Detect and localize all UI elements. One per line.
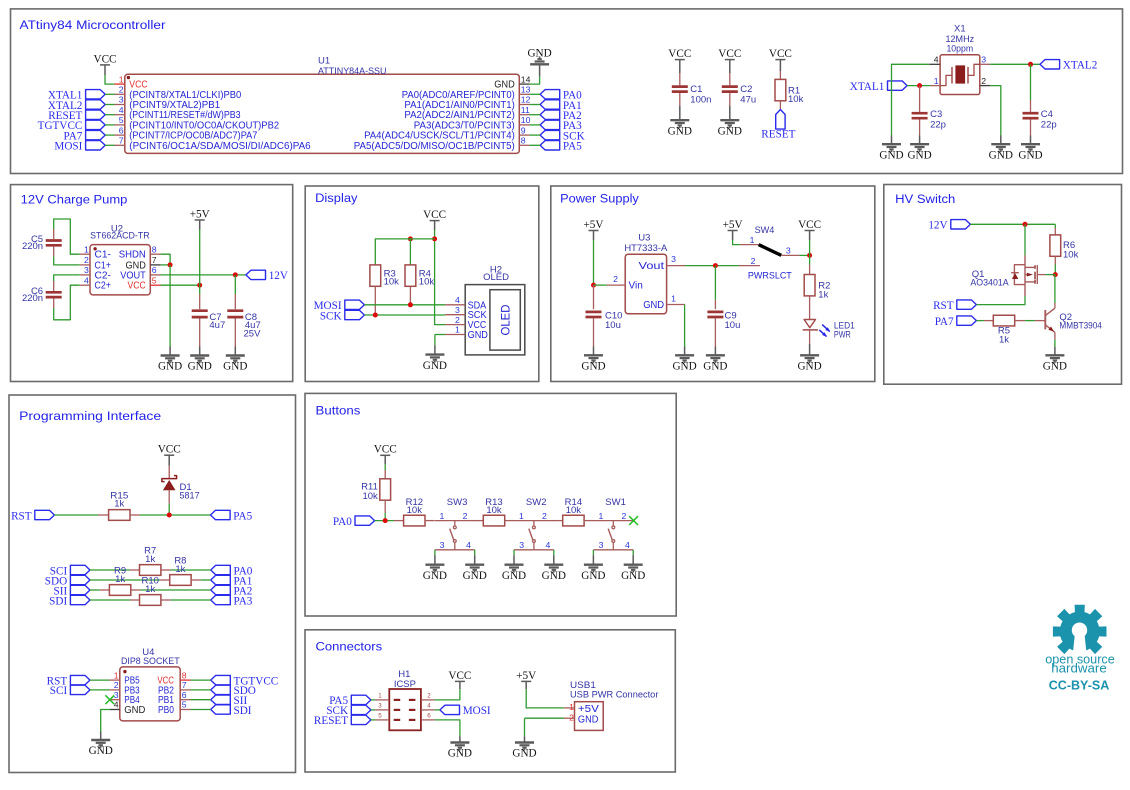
- svg-text:GND: GND: [502, 570, 526, 582]
- svg-text:+5V: +5V: [578, 704, 599, 715]
- svg-text:8: 8: [182, 670, 187, 680]
- svg-text:1: 1: [934, 76, 939, 86]
- svg-text:2: 2: [119, 85, 124, 95]
- svg-text:5: 5: [378, 712, 382, 719]
- svg-text:Display: Display: [315, 191, 358, 205]
- svg-text:13: 13: [521, 85, 531, 95]
- svg-text:4: 4: [84, 275, 89, 285]
- svg-text:GND: GND: [158, 361, 182, 373]
- svg-text:Power Supply: Power Supply: [560, 192, 640, 206]
- svg-text:GND: GND: [581, 361, 605, 373]
- svg-text:1: 1: [750, 235, 755, 245]
- svg-text:3: 3: [119, 95, 124, 105]
- svg-text:SCI: SCI: [50, 685, 68, 697]
- svg-text:SW4: SW4: [755, 225, 775, 236]
- svg-text:PB0: PB0: [158, 705, 174, 716]
- svg-text:4: 4: [114, 700, 119, 710]
- svg-text:SW1: SW1: [605, 497, 626, 508]
- svg-text:Buttons: Buttons: [316, 404, 361, 418]
- svg-text:7: 7: [152, 255, 157, 265]
- svg-text:1k: 1k: [145, 584, 155, 595]
- svg-text:DIP8 SOCKET: DIP8 SOCKET: [121, 656, 180, 667]
- svg-text:4: 4: [625, 540, 630, 550]
- svg-text:2: 2: [463, 511, 468, 521]
- svg-text:3: 3: [981, 55, 986, 65]
- svg-text:10k: 10k: [788, 94, 804, 105]
- svg-text:220n: 220n: [22, 241, 43, 252]
- svg-text:hardware: hardware: [1051, 661, 1107, 676]
- svg-text:3: 3: [786, 245, 791, 255]
- svg-text:+5V: +5V: [584, 219, 604, 231]
- svg-text:6: 6: [427, 712, 431, 719]
- svg-text:GND: GND: [1018, 149, 1042, 161]
- svg-text:GND: GND: [527, 48, 551, 60]
- svg-text:25V: 25V: [244, 328, 262, 339]
- svg-text:Connectors: Connectors: [316, 640, 383, 654]
- svg-text:VCC: VCC: [448, 670, 471, 682]
- svg-text:2: 2: [613, 274, 618, 284]
- svg-text:4: 4: [934, 55, 939, 65]
- svg-text:8: 8: [152, 244, 157, 254]
- svg-text:+5V: +5V: [516, 670, 536, 682]
- svg-text:GND: GND: [718, 125, 742, 137]
- svg-text:PA3: PA3: [234, 595, 253, 607]
- svg-text:10k: 10k: [486, 505, 502, 516]
- svg-text:GND: GND: [1043, 361, 1067, 373]
- svg-text:GND: GND: [578, 714, 599, 725]
- svg-text:22p: 22p: [930, 120, 946, 131]
- svg-text:2: 2: [751, 256, 756, 266]
- svg-text:VCC: VCC: [798, 219, 821, 231]
- svg-text:PA5: PA5: [233, 510, 252, 522]
- svg-text:HV Switch: HV Switch: [895, 192, 955, 206]
- svg-text:9: 9: [521, 125, 526, 135]
- svg-text:10k: 10k: [362, 491, 378, 502]
- svg-text:1: 1: [671, 293, 676, 303]
- svg-text:12V: 12V: [269, 270, 288, 282]
- svg-text:1: 1: [114, 670, 119, 680]
- svg-text:OLED: OLED: [501, 305, 513, 336]
- svg-text:10ppm: 10ppm: [946, 44, 973, 55]
- svg-text:PA7: PA7: [935, 316, 954, 328]
- svg-text:1: 1: [378, 692, 382, 699]
- svg-text:5: 5: [182, 700, 187, 710]
- svg-text:1: 1: [440, 511, 445, 521]
- svg-text:GND: GND: [463, 570, 487, 582]
- svg-text:PA0: PA0: [333, 516, 352, 528]
- svg-text:4: 4: [455, 295, 460, 305]
- svg-text:8: 8: [521, 136, 526, 146]
- svg-text:X1: X1: [954, 24, 966, 35]
- svg-text:1: 1: [84, 244, 89, 254]
- svg-text:OLED: OLED: [483, 272, 509, 283]
- svg-text:2: 2: [84, 255, 89, 265]
- svg-text:1: 1: [569, 702, 574, 712]
- svg-text:2: 2: [569, 713, 574, 723]
- svg-text:5817: 5817: [180, 491, 200, 502]
- svg-text:VCC: VCC: [423, 209, 446, 221]
- svg-text:ATtiny84 Microcontroller: ATtiny84 Microcontroller: [20, 18, 166, 32]
- svg-text:RESET: RESET: [314, 715, 348, 727]
- svg-text:GND: GND: [512, 748, 536, 760]
- svg-text:SDI: SDI: [49, 595, 67, 607]
- svg-text:GND: GND: [89, 745, 113, 757]
- svg-text:GND: GND: [797, 361, 821, 373]
- svg-text:SW2: SW2: [526, 497, 547, 508]
- svg-text:C1-: C1-: [95, 250, 111, 261]
- svg-text:220n: 220n: [22, 293, 43, 304]
- svg-text:3: 3: [84, 265, 89, 275]
- svg-text:GND: GND: [423, 360, 447, 372]
- svg-text:AO3401A: AO3401A: [970, 277, 1009, 288]
- svg-text:4u7: 4u7: [209, 320, 225, 331]
- svg-text:1k: 1k: [818, 289, 828, 300]
- svg-text:12V Charge Pump: 12V Charge Pump: [21, 193, 128, 207]
- svg-text:1: 1: [119, 74, 124, 84]
- svg-text:5: 5: [152, 275, 157, 285]
- svg-text:USB PWR Connector: USB PWR Connector: [570, 690, 658, 701]
- svg-text:1: 1: [519, 511, 524, 521]
- svg-text:3: 3: [671, 254, 676, 264]
- svg-text:MMBT3904: MMBT3904: [1059, 321, 1102, 332]
- svg-text:6: 6: [119, 125, 124, 135]
- svg-text:VCC: VCC: [374, 444, 397, 456]
- svg-text:1: 1: [455, 325, 460, 335]
- svg-text:PWRSLCT: PWRSLCT: [748, 270, 792, 281]
- svg-text:10k: 10k: [407, 505, 423, 516]
- svg-text:HT7333-A: HT7333-A: [624, 243, 668, 254]
- svg-text:GND: GND: [989, 149, 1013, 161]
- svg-text:4: 4: [427, 702, 431, 709]
- svg-text:SW3: SW3: [447, 497, 468, 508]
- svg-text:GND: GND: [124, 705, 145, 716]
- svg-text:XTAL1: XTAL1: [850, 81, 885, 93]
- svg-text:XTAL2: XTAL2: [1063, 60, 1098, 72]
- svg-text:1k: 1k: [999, 335, 1009, 346]
- svg-text:GND: GND: [223, 361, 247, 373]
- svg-text:SDI: SDI: [234, 705, 252, 717]
- svg-text:MOSI: MOSI: [54, 141, 82, 153]
- svg-text:VCC: VCC: [128, 281, 146, 292]
- svg-text:4: 4: [466, 540, 471, 550]
- svg-text:GND: GND: [581, 570, 605, 582]
- svg-text:3: 3: [599, 540, 604, 550]
- svg-text:4: 4: [119, 105, 124, 115]
- svg-text:3: 3: [378, 702, 382, 709]
- svg-text:GND: GND: [448, 748, 472, 760]
- svg-text:7: 7: [119, 136, 124, 146]
- svg-text:RESET: RESET: [761, 129, 795, 141]
- svg-text:3: 3: [455, 305, 460, 315]
- svg-text:4: 4: [546, 540, 551, 550]
- svg-text:10k: 10k: [566, 505, 582, 516]
- svg-text:14: 14: [521, 74, 531, 84]
- svg-text:7: 7: [182, 680, 187, 690]
- svg-text:GND: GND: [188, 361, 212, 373]
- svg-text:10u: 10u: [725, 320, 741, 331]
- svg-text:2: 2: [455, 315, 460, 325]
- svg-text:CC-BY-SA: CC-BY-SA: [1049, 678, 1110, 693]
- svg-text:GND: GND: [423, 570, 447, 582]
- svg-text:2: 2: [114, 680, 119, 690]
- svg-text:6: 6: [182, 690, 187, 700]
- svg-text:1k: 1k: [145, 554, 155, 565]
- svg-text:GND: GND: [703, 361, 727, 373]
- svg-text:1k: 1k: [114, 498, 124, 509]
- svg-text:GND: GND: [672, 361, 696, 373]
- svg-text:+5V: +5V: [723, 219, 743, 231]
- svg-text:22p: 22p: [1041, 120, 1057, 131]
- svg-text:6: 6: [152, 265, 157, 275]
- svg-text:GND: GND: [668, 125, 692, 137]
- svg-text:12: 12: [521, 95, 531, 105]
- svg-text:Vin: Vin: [629, 281, 643, 292]
- svg-text:2: 2: [621, 511, 626, 521]
- svg-text:100n: 100n: [690, 94, 711, 105]
- svg-text:10k: 10k: [419, 276, 435, 287]
- svg-text:U3: U3: [638, 233, 650, 244]
- svg-text:SCK: SCK: [320, 310, 342, 322]
- svg-text:VCC: VCC: [158, 444, 181, 456]
- svg-text:GND: GND: [907, 149, 931, 161]
- svg-text:VCC: VCC: [769, 48, 792, 60]
- svg-text:PWR: PWR: [834, 329, 851, 340]
- svg-text:10: 10: [521, 115, 531, 125]
- svg-text:(PCINT6/OC1A/SDA/MOSI/DI/ADC6): (PCINT6/OC1A/SDA/MOSI/DI/ADC6)PA6: [129, 141, 311, 152]
- svg-text:PA5: PA5: [563, 141, 582, 153]
- svg-text:ATTINY84A-SSU: ATTINY84A-SSU: [318, 66, 387, 77]
- svg-text:GND: GND: [468, 330, 488, 341]
- svg-text:ST662ACD-TR: ST662ACD-TR: [90, 231, 150, 242]
- svg-text:10k: 10k: [1063, 249, 1079, 260]
- svg-text:SHDN: SHDN: [119, 250, 146, 261]
- svg-text:3: 3: [114, 690, 119, 700]
- svg-text:3: 3: [519, 540, 524, 550]
- svg-text:10u: 10u: [605, 320, 621, 331]
- svg-text:3: 3: [440, 540, 445, 550]
- svg-text:VCC: VCC: [668, 48, 691, 60]
- svg-text:GND: GND: [879, 149, 903, 161]
- svg-text:1k: 1k: [115, 574, 125, 585]
- svg-text:C2+: C2+: [95, 281, 112, 292]
- svg-text:2: 2: [427, 692, 431, 699]
- svg-text:Vout: Vout: [639, 261, 665, 272]
- svg-text:GND: GND: [542, 570, 566, 582]
- svg-text:PA5(ADC5/DO/MISO/OC1B/PCINT5): PA5(ADC5/DO/MISO/OC1B/PCINT5): [354, 141, 515, 152]
- svg-text:MOSI: MOSI: [463, 705, 491, 717]
- svg-text:Programming Interface: Programming Interface: [19, 409, 161, 423]
- svg-text:2: 2: [981, 76, 986, 86]
- svg-text:47u: 47u: [740, 94, 756, 105]
- svg-text:RST: RST: [11, 510, 32, 522]
- svg-text:GND: GND: [621, 570, 645, 582]
- svg-text:VCC: VCC: [718, 48, 741, 60]
- svg-text:12V: 12V: [928, 220, 947, 232]
- svg-text:VCC: VCC: [93, 53, 116, 65]
- svg-text:1k: 1k: [175, 564, 185, 575]
- svg-text:+5V: +5V: [190, 208, 210, 220]
- svg-text:10k: 10k: [384, 276, 400, 287]
- svg-text:5: 5: [119, 115, 124, 125]
- svg-text:GND: GND: [643, 300, 664, 311]
- svg-text:2: 2: [542, 511, 547, 521]
- svg-text:RST: RST: [933, 300, 954, 312]
- svg-text:11: 11: [521, 105, 530, 115]
- svg-text:1: 1: [598, 511, 603, 521]
